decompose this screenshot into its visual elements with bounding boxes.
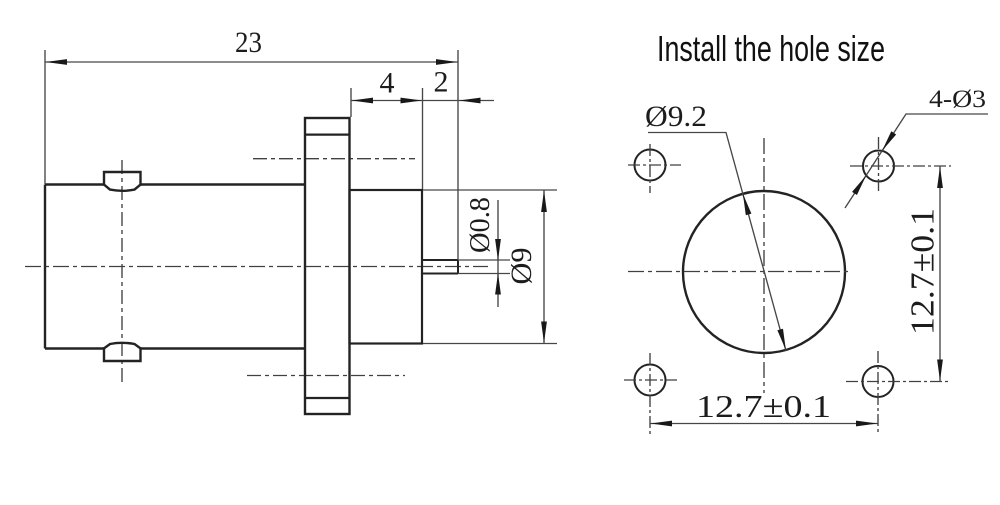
extension line right x458 bbox=[457, 50, 459, 260]
svg-text:12.7±0.1: 12.7±0.1 bbox=[905, 208, 942, 335]
dia 9.2 leader line bbox=[648, 133, 786, 352]
centerline horizontal of main circle bbox=[628, 271, 851, 273]
dimension 23 line bbox=[45, 61, 458, 63]
4-dia3 leader line bbox=[845, 114, 988, 208]
centerline lower flange hole bbox=[247, 375, 405, 377]
svg-text:Install the hole size: Install the hole size bbox=[657, 28, 885, 69]
center pin outline bbox=[422, 260, 458, 274]
centerline vertical of main circle bbox=[763, 138, 765, 393]
bayonet lug bottom bbox=[104, 343, 141, 361]
extension line rear body right for dim 4/2 bbox=[422, 88, 424, 189]
dimension 4-2 line bbox=[351, 100, 494, 102]
extension line left of dim 23 bbox=[44, 50, 46, 184]
centerline main axis bbox=[25, 266, 488, 268]
svg-text:12.7±0.1: 12.7±0.1 bbox=[696, 388, 831, 424]
centerline bayonet pin vertical bbox=[121, 160, 123, 382]
svg-text:Ø9: Ø9 bbox=[505, 248, 538, 285]
svg-text:4: 4 bbox=[380, 67, 395, 100]
svg-text:2: 2 bbox=[434, 66, 449, 99]
mounting hole top-left bbox=[635, 150, 666, 181]
flange outline bbox=[305, 118, 350, 414]
svg-text:4-Ø3: 4-Ø3 bbox=[929, 86, 986, 113]
mounting hole bottom-right bbox=[863, 366, 894, 397]
extension line flange right for dim 4 bbox=[350, 88, 352, 117]
vertical dimension 12.7 line bbox=[939, 166, 941, 382]
svg-text:Ø9.2: Ø9.2 bbox=[645, 100, 707, 133]
centerline upper flange hole bbox=[253, 158, 415, 160]
extension lines for dia 9 bbox=[423, 190, 557, 344]
rear body outline bbox=[350, 190, 423, 344]
bayonet lug top bbox=[104, 172, 141, 191]
mounting hole top-right bbox=[863, 151, 894, 182]
pin extension lines for dia 0.8 bbox=[458, 260, 510, 274]
svg-text:Ø0.8: Ø0.8 bbox=[465, 197, 496, 253]
barrel body outline bbox=[45, 185, 305, 349]
mounting hole bottom-left bbox=[635, 365, 666, 396]
dia 0.8 dimension line vertical bbox=[497, 200, 499, 307]
flange bottom chamfer line bbox=[305, 397, 350, 399]
svg-text:23: 23 bbox=[235, 26, 262, 59]
main hole circle bbox=[683, 191, 845, 353]
dia 9 dimension line vertical bbox=[543, 190, 545, 344]
horizontal dimension 12.7 line bbox=[650, 423, 878, 425]
flange top chamfer line bbox=[305, 134, 350, 136]
